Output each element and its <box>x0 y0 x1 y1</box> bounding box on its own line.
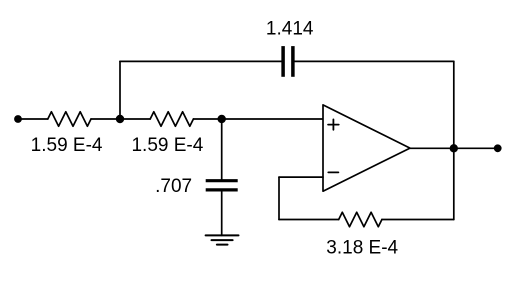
svg-text:3.18 E-4: 3.18 E-4 <box>326 238 398 259</box>
svg-text:1.59 E-4: 1.59 E-4 <box>131 135 203 156</box>
svg-text:.707: .707 <box>155 176 192 197</box>
svg-text:1.414: 1.414 <box>266 19 314 40</box>
svg-text:1.59 E-4: 1.59 E-4 <box>31 135 103 156</box>
